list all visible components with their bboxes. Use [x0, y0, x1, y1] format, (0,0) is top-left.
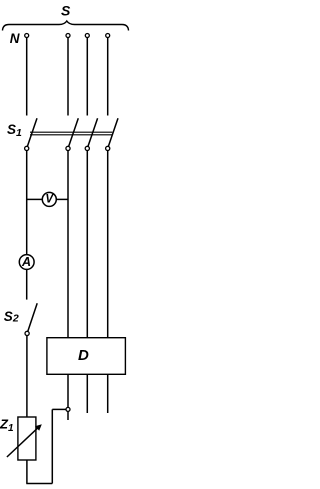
wire col4 S1 to box D	[107, 150, 109, 337]
switch S1 pole 4 blade	[108, 118, 118, 146]
switch S1 coupling bar (double line)	[30, 132, 112, 135]
svg-text:N: N	[10, 31, 20, 46]
wire col2 S1 to box D	[67, 150, 69, 337]
svg-text:V: V	[45, 194, 54, 206]
terminal circle col2	[66, 34, 70, 38]
impedance Z1 box	[18, 417, 36, 460]
wire col2 stub below node	[67, 412, 69, 421]
wire col4 below box D	[107, 374, 109, 413]
wire col3 below box D	[86, 374, 88, 413]
switch S1 pole 2 blade	[69, 118, 79, 146]
brace S (supply bus bracket)	[3, 21, 129, 31]
wire col3 S1 to box D	[86, 150, 88, 337]
switch S1 pole 1 blade	[27, 118, 37, 146]
terminal circle col1 (N)	[25, 34, 29, 38]
node circle on col2	[66, 407, 70, 411]
svg-text:A: A	[21, 255, 31, 269]
switch S2 hinge circle	[25, 331, 29, 335]
switch S1 pole 2 hinge circle	[66, 146, 70, 150]
switch S2 blade	[28, 303, 38, 331]
impedance Z1 variable arrow	[7, 424, 42, 457]
svg-text:D: D	[78, 347, 89, 364]
wire col2 terminal to S1	[67, 38, 69, 116]
svg-text:S: S	[61, 3, 71, 19]
wire col1 ammeter to S2	[26, 269, 28, 299]
box D	[47, 338, 126, 375]
terminal circle col3	[85, 34, 89, 38]
wire col1 S1 to voltmeter tee	[26, 150, 28, 255]
ammeter A circle	[19, 255, 34, 270]
wire bottom horizontal	[26, 483, 52, 485]
switch S1 pole 1 hinge circle	[25, 146, 29, 150]
wire Z1 bottom down	[26, 460, 28, 484]
wire horizontal to node circle	[52, 408, 66, 410]
svg-text:S2: S2	[4, 309, 19, 325]
wire right vertical up to node	[51, 409, 53, 483]
svg-text:S1: S1	[7, 122, 22, 139]
switch S1 pole 4 hinge circle	[106, 146, 110, 150]
svg-text:Z1: Z1	[0, 416, 14, 434]
wire voltmeter branch right	[56, 198, 68, 200]
wire col4 terminal to S1	[107, 38, 109, 116]
wire voltmeter branch left	[27, 198, 43, 200]
switch S1 pole 3 blade	[88, 118, 98, 146]
wire col3 terminal to S1	[86, 38, 88, 116]
terminal circle col4	[106, 34, 110, 38]
wire col2 below box D	[67, 374, 69, 407]
switch S1 pole 3 hinge circle	[85, 146, 89, 150]
voltmeter V circle	[42, 192, 56, 206]
wire col1 terminal to S1	[26, 38, 28, 116]
wire col1 S2 to Z1	[26, 335, 28, 417]
